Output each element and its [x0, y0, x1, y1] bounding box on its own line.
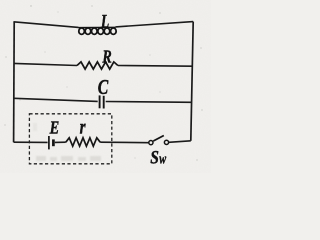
wire: r to switch: [100, 141, 148, 144]
svg-text:E: E: [49, 117, 60, 138]
paper background: [0, 0, 211, 173]
svg-text:w: w: [159, 151, 166, 167]
capacitor C plates: [100, 95, 104, 108]
switch Sw contact 2: [164, 140, 168, 144]
battery E short plate: [52, 139, 55, 146]
wire: bottom-left to battery: [14, 141, 48, 143]
dashed box around E and r: [29, 114, 111, 164]
switch Sw contact 1: [149, 141, 153, 145]
svg-text:C: C: [98, 76, 109, 100]
svg-text:R: R: [102, 48, 112, 67]
resistor r: [66, 138, 100, 146]
wire: R branch left: [14, 63, 77, 65]
resistor R: [77, 62, 118, 69]
wire: right vertical: [191, 22, 193, 141]
ghost print marks inside dashed box bottom: [33, 123, 101, 161]
svg-text:S: S: [150, 147, 159, 168]
faint specks (scan noise): [4, 5, 202, 160]
wire: switch to bottom-right corner: [169, 141, 191, 143]
svg-text:L: L: [100, 10, 109, 32]
wire: R branch right: [118, 65, 192, 68]
wire: inductor to top-right: [116, 22, 194, 27]
svg-text:r: r: [80, 115, 87, 138]
inductor L coil: [79, 27, 117, 34]
wire: left vertical: [13, 22, 16, 143]
wire: battery to r: [55, 141, 66, 143]
switch Sw arm: [153, 136, 164, 142]
battery E long plate: [48, 136, 50, 149]
wire: top-left to inductor: [14, 22, 79, 28]
wire: C branch left: [14, 98, 98, 101]
wire: C branch right: [106, 101, 192, 104]
